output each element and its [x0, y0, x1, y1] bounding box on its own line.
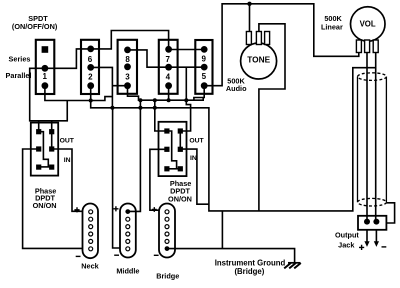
svg-text:Audio: Audio: [226, 84, 247, 93]
svg-text:7: 7: [165, 55, 170, 64]
svg-text:5: 5: [202, 72, 207, 81]
svg-text:Bridge: Bridge: [156, 272, 179, 281]
svg-text:Middle: Middle: [116, 266, 139, 275]
svg-text:9: 9: [201, 55, 206, 64]
svg-text:Jack: Jack: [338, 240, 355, 249]
svg-text:Series: Series: [9, 55, 31, 64]
svg-text:Linear: Linear: [321, 22, 343, 31]
svg-text:VOL: VOL: [360, 20, 376, 29]
svg-text:6: 6: [88, 55, 93, 64]
svg-text:ON/ON: ON/ON: [33, 201, 57, 210]
svg-text:8: 8: [125, 55, 130, 64]
svg-text:Output: Output: [335, 231, 359, 240]
svg-text:ON/ON: ON/ON: [168, 195, 192, 204]
svg-text:OUT: OUT: [60, 137, 75, 144]
svg-text:IN: IN: [64, 157, 71, 164]
svg-text:IN: IN: [190, 155, 197, 162]
svg-text:Neck: Neck: [81, 261, 99, 270]
svg-text:2: 2: [88, 72, 93, 81]
svg-text:3: 3: [125, 72, 130, 81]
svg-text:OUT: OUT: [189, 137, 204, 144]
svg-text:4: 4: [166, 72, 171, 81]
svg-text:(Bridge): (Bridge): [234, 267, 264, 276]
svg-text:(ON/OFF/ON): (ON/OFF/ON): [12, 22, 58, 31]
svg-text:Parallel: Parallel: [6, 71, 32, 80]
svg-text:TONE: TONE: [247, 55, 270, 65]
svg-text:1: 1: [42, 72, 47, 81]
